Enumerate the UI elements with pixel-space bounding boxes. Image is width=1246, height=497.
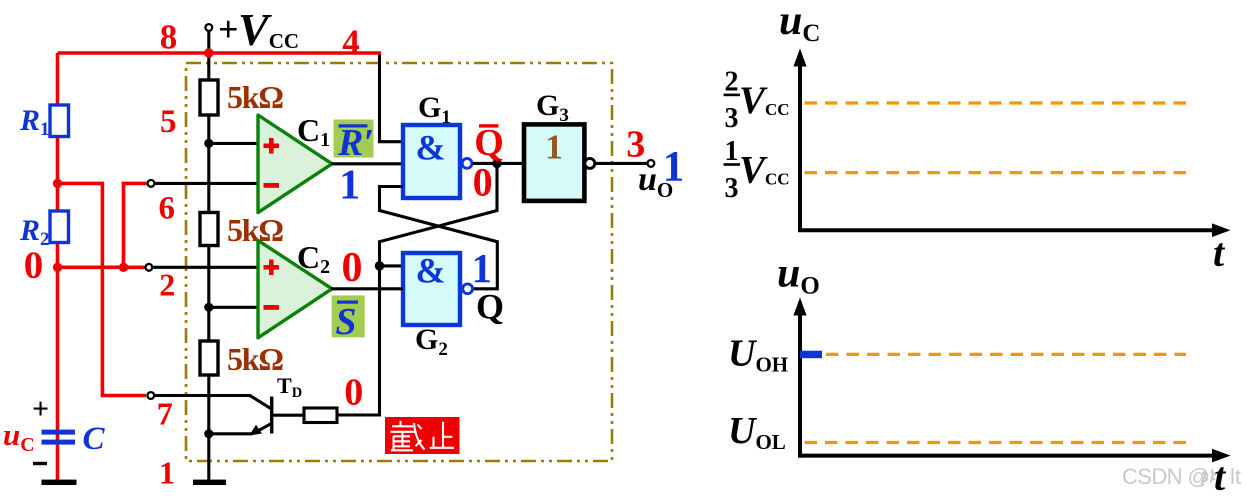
svg-text:1: 1 bbox=[471, 245, 492, 291]
svg-text:C: C bbox=[83, 421, 106, 457]
svg-text:0: 0 bbox=[342, 245, 363, 291]
capacitor C bbox=[42, 430, 76, 445]
terminal pin 2 bbox=[146, 264, 153, 271]
dash-dot boundary box of 555 bbox=[186, 63, 612, 461]
svg-text:VCC: VCC bbox=[739, 149, 790, 192]
svg-text:UOH: UOH bbox=[728, 333, 788, 377]
buffer gate G3 bbox=[524, 124, 584, 200]
op-amp comparator C1 bbox=[258, 115, 332, 213]
svg-text:uC: uC bbox=[779, 0, 820, 47]
node divider C2 bbox=[204, 303, 213, 312]
label Qbar red bbox=[474, 122, 504, 164]
svg-text:C1: C1 bbox=[297, 112, 330, 151]
svg-text:3: 3 bbox=[725, 103, 739, 134]
ground under capacitor bbox=[42, 480, 77, 485]
svg-text:1: 1 bbox=[725, 136, 739, 167]
svg-text:1: 1 bbox=[339, 163, 360, 209]
wire red vertical to pin6 bbox=[124, 183, 147, 267]
wire C2 output to G2 bbox=[331, 287, 403, 290]
svg-text:R1: R1 bbox=[19, 104, 50, 140]
svg-text:G1: G1 bbox=[418, 91, 451, 128]
wire latch cross feedback Qbar to G2 input and TD base bbox=[337, 163, 497, 415]
dashed line 1/3 Vcc bbox=[805, 171, 1187, 174]
node red junction R1/R2 bbox=[53, 179, 62, 188]
svg-text:3: 3 bbox=[725, 173, 739, 204]
svg-text:uC: uC bbox=[3, 417, 35, 456]
dashed line 2/3 Vcc bbox=[805, 101, 1187, 104]
svg-text:uO: uO bbox=[777, 251, 820, 300]
nand gate G2 bbox=[403, 253, 460, 325]
svg-text:&: & bbox=[416, 128, 446, 168]
wire G2 upper input branch bbox=[380, 264, 404, 267]
wire C1 output to G1 bbox=[331, 162, 403, 165]
wire red top rail pin8 to pin4 bbox=[58, 51, 382, 55]
resistor R2 bbox=[50, 211, 69, 243]
svg-text:0: 0 bbox=[344, 372, 363, 414]
svg-text:0: 0 bbox=[24, 244, 44, 287]
svg-text:1: 1 bbox=[159, 455, 175, 491]
label jiezhi cutoff red tag bbox=[385, 417, 460, 454]
resistor 5k middle bbox=[200, 213, 218, 246]
svg-text:8: 8 bbox=[160, 18, 178, 57]
label minus input C2 bbox=[264, 305, 280, 310]
label plus input C1 bbox=[264, 138, 280, 154]
svg-text:t: t bbox=[1214, 454, 1227, 497]
svg-text:R′: R′ bbox=[337, 122, 374, 164]
resistor TD base bbox=[304, 408, 337, 423]
wire red junction to pin7 path bbox=[58, 183, 147, 395]
svg-text:t: t bbox=[1213, 230, 1226, 275]
svg-text:4: 4 bbox=[342, 23, 360, 62]
resistor 5k bottom bbox=[200, 341, 218, 375]
wire C2 plus input from pin2 bbox=[153, 266, 258, 269]
svg-text:Q: Q bbox=[474, 122, 504, 164]
label S-bar green tag bbox=[332, 295, 365, 343]
wire red left vertical bbox=[56, 53, 60, 440]
svg-text:UOL: UOL bbox=[728, 410, 786, 454]
node red junction pin2 branch bbox=[119, 263, 128, 272]
ground pin 1 bbox=[193, 480, 226, 485]
svg-text:C2: C2 bbox=[297, 239, 330, 278]
svg-text:2: 2 bbox=[159, 266, 175, 302]
node divider C1 bbox=[204, 139, 213, 148]
dashed line UOH bbox=[826, 353, 1186, 356]
resistor R1 bbox=[50, 105, 69, 137]
terminal pin 7 bbox=[147, 392, 154, 399]
svg-text:5kΩ: 5kΩ bbox=[227, 212, 283, 248]
wire latch cross feedback G2out to G1 input bbox=[380, 187, 498, 289]
svg-text:G2: G2 bbox=[415, 323, 448, 360]
bubble G1 output bbox=[462, 159, 472, 169]
op-amp comparator C2 bbox=[258, 240, 332, 337]
resistor 5k top bbox=[200, 80, 218, 115]
label 2/3 Vcc bbox=[724, 67, 790, 135]
svg-text:5kΩ: 5kΩ bbox=[227, 79, 283, 115]
svg-text:VCC: VCC bbox=[739, 79, 790, 122]
axis uO horizontal bbox=[798, 454, 1215, 458]
node G2 input junction bbox=[375, 261, 385, 271]
svg-text:Q: Q bbox=[476, 287, 504, 327]
label 1/3 Vcc bbox=[724, 136, 790, 204]
wire red pin2 row bbox=[58, 265, 145, 269]
nand gate G1 bbox=[403, 125, 460, 198]
wire C1 minus input from pin6 bbox=[155, 182, 258, 185]
dashed line UOL bbox=[805, 441, 1187, 444]
label plus input C2 bbox=[264, 260, 280, 276]
node red junction on rail bbox=[204, 48, 214, 58]
terminal pin 6 bbox=[148, 180, 155, 187]
svg-text:&: & bbox=[416, 251, 446, 291]
wire red capacitor to ground bbox=[56, 445, 60, 480]
bubble G2 output bbox=[463, 284, 473, 294]
svg-text:lt: lt bbox=[1230, 464, 1241, 489]
svg-text:7: 7 bbox=[157, 396, 173, 432]
svg-text:TD: TD bbox=[277, 373, 302, 401]
power terminal +Vcc bbox=[205, 24, 212, 53]
svg-text:2: 2 bbox=[725, 67, 739, 98]
wire pin4 vertical into G1 bbox=[380, 55, 404, 142]
transistor TD bbox=[155, 396, 304, 436]
wire C1 plus input bbox=[209, 142, 258, 145]
node emitter junction bbox=[204, 429, 213, 438]
label minus input C1 bbox=[264, 183, 280, 188]
wire G1 output to G3 bbox=[473, 162, 525, 165]
bubble G3 output bbox=[585, 158, 595, 168]
svg-text:6: 6 bbox=[159, 191, 176, 227]
watermark CSDN bbox=[1122, 464, 1241, 489]
svg-text:+: + bbox=[218, 9, 239, 49]
axis uC vertical bbox=[798, 63, 802, 232]
axis uO vertical bbox=[798, 312, 802, 458]
svg-text:0: 0 bbox=[473, 160, 493, 205]
svg-text:5kΩ: 5kΩ bbox=[227, 341, 283, 377]
UOH blue level mark bbox=[800, 351, 822, 359]
wire G3 output to pin3 bbox=[596, 162, 647, 165]
axis uC horizontal bbox=[798, 228, 1215, 232]
node Qbar junction bbox=[492, 159, 502, 169]
svg-text:5: 5 bbox=[160, 104, 177, 140]
label R-bar-prime green tag bbox=[334, 120, 375, 165]
wire C2 minus input bbox=[209, 306, 258, 309]
wire black divider column bbox=[207, 53, 210, 480]
svg-text:VCC: VCC bbox=[238, 4, 299, 55]
terminal pin 3 bbox=[648, 160, 655, 167]
svg-text:G3: G3 bbox=[536, 89, 569, 126]
svg-text:1: 1 bbox=[545, 128, 563, 167]
svg-text:+: + bbox=[32, 393, 49, 426]
node red junction R2 bottom bbox=[53, 263, 62, 272]
label minus of capacitor bbox=[33, 462, 47, 465]
svg-text:3: 3 bbox=[626, 124, 645, 166]
svg-text:CSDN @: CSDN @ bbox=[1122, 464, 1209, 489]
svg-text:S: S bbox=[335, 301, 356, 343]
